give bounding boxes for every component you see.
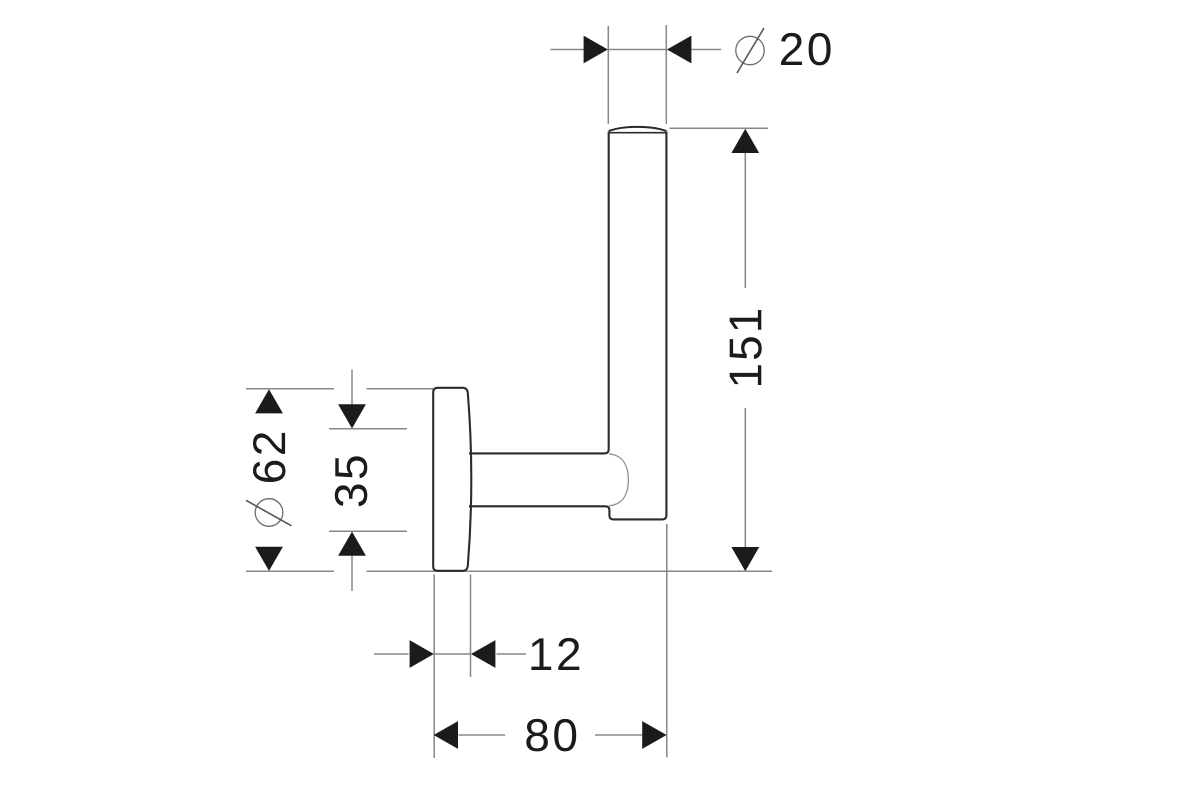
arrow 12 left (points right) xyxy=(410,640,434,668)
tube top dome xyxy=(609,127,667,131)
arm top edge xyxy=(469,132,609,454)
dimension line 151 upper segment xyxy=(744,152,746,288)
dimension line 80 left segment xyxy=(459,734,506,736)
extension line tube left edge (for Ø20) xyxy=(607,26,609,124)
extension line plate bottom (for Ø62 / 151) xyxy=(246,570,772,572)
arrow Ø62 top (points up) xyxy=(255,389,283,413)
dimension line Ø20 right leader xyxy=(692,49,722,51)
extension line plate top (for Ø62) xyxy=(246,388,433,390)
dimension line 12 right leader xyxy=(497,653,527,655)
dimension text 80 xyxy=(526,719,576,752)
arrow 151 top (points up) xyxy=(731,129,759,153)
dimension line 12 middle segment xyxy=(434,653,471,655)
arrow Ø20 right (points left) xyxy=(667,36,691,64)
diameter symbol for 20 xyxy=(736,28,764,73)
extension line 35 bottom xyxy=(329,530,407,532)
arrow 80 right (points right) xyxy=(642,721,666,749)
dimension text 35 (rotated) xyxy=(335,456,368,506)
elbow tangent curve xyxy=(609,454,628,506)
arrow 35 bottom (points up) xyxy=(338,532,366,556)
dimension text 151 (rotated) xyxy=(730,310,762,385)
dimension line 80 right segment xyxy=(595,734,642,736)
extension line tube top (for 151) xyxy=(670,127,769,129)
arm bottom edge and tube bottom cap xyxy=(469,132,666,520)
arrow Ø62 bottom (points down) xyxy=(255,547,283,571)
diameter symbol for 62 xyxy=(246,499,292,527)
dimension text 62 (rotated) xyxy=(253,433,286,482)
wall plate outline xyxy=(433,388,471,571)
dimension line 35 lower segment xyxy=(351,556,353,592)
tube top rim line xyxy=(610,132,666,134)
arrow 151 bottom (points down) xyxy=(731,547,759,571)
arrow Ø20 left (points right) xyxy=(584,36,608,64)
dimension line Ø20 left leader xyxy=(551,49,585,51)
extension line plate left edge (for 12/80) xyxy=(433,575,435,759)
extension line tube right edge (for 80) xyxy=(666,524,668,758)
extension line tube right edge (for Ø20) xyxy=(665,25,667,124)
extension line 35 top xyxy=(329,428,407,430)
dimension line 12 left leader xyxy=(374,653,409,655)
extension line plate right edge (for 12) xyxy=(470,575,472,678)
arrow 80 left (points left) xyxy=(434,721,458,749)
arrow 35 top (points down) xyxy=(338,404,366,428)
dimension text 20 xyxy=(781,33,831,66)
dimension text 12 xyxy=(531,638,579,670)
dimension line Ø20 middle segment xyxy=(608,49,668,51)
dimension line 35 upper segment xyxy=(351,370,353,405)
dimension line 151 lower segment xyxy=(744,408,746,548)
arrow 12 right (points left) xyxy=(471,640,495,668)
